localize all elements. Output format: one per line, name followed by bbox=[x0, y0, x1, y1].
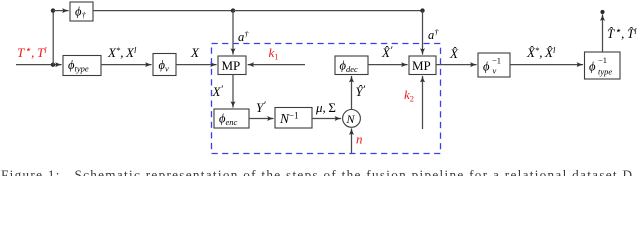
wire: a-dagger drop into MP2 bbox=[422, 11, 424, 55]
svg-text:v: v bbox=[493, 66, 497, 76]
box MP1 bbox=[218, 56, 246, 75]
svg-text:X: X bbox=[190, 45, 200, 60]
svg-text:Ŷ′: Ŷ′ bbox=[356, 84, 366, 100]
svg-text:a†: a† bbox=[428, 27, 439, 42]
sampler circle N bbox=[343, 110, 361, 128]
svg-text:N: N bbox=[346, 112, 356, 126]
box phi_dagger bbox=[70, 2, 93, 21]
svg-text:n: n bbox=[356, 132, 363, 147]
node: corner dot above MP2 bbox=[420, 8, 424, 12]
wire: k2 up into MP2 bbox=[422, 76, 424, 129]
wire: phi_dec to MP2 bbox=[368, 64, 408, 66]
svg-text:X′: X′ bbox=[212, 84, 224, 100]
svg-text:X̂′: X̂′ bbox=[381, 45, 393, 61]
dashed VAE region bbox=[212, 44, 441, 154]
svg-text:−1: −1 bbox=[598, 55, 607, 65]
box phi_type bbox=[63, 56, 101, 76]
svg-text:k1: k1 bbox=[269, 45, 279, 62]
box N^-1 bbox=[275, 108, 312, 129]
node: junction dot above MP1 bbox=[231, 8, 235, 12]
wire: a-dagger drop into MP1 bbox=[232, 11, 234, 55]
box phi_v^-1 bbox=[478, 53, 510, 77]
svg-text:X̂: X̂ bbox=[449, 46, 459, 61]
box phi_dec bbox=[335, 56, 368, 75]
wire: phi_enc to N^-1 bbox=[249, 118, 274, 120]
svg-text:X*, Xl: X*, Xl bbox=[107, 45, 137, 60]
wire: phi_v to MP1 bbox=[176, 64, 217, 66]
svg-text:MP: MP bbox=[222, 58, 241, 73]
svg-text:Y′: Y′ bbox=[256, 100, 266, 116]
box phi_v bbox=[153, 54, 176, 76]
svg-text:a†: a† bbox=[238, 29, 249, 44]
wire: top bus into phi_dagger bbox=[53, 10, 69, 12]
wire: phi_v^-1 to phi_type^-1 bbox=[510, 64, 583, 66]
wire: vertical riser from main line to top bus bbox=[52, 10, 54, 65]
node: output terminal dot bbox=[600, 10, 604, 14]
svg-text:ϕ: ϕ bbox=[589, 60, 596, 74]
svg-text:X̂*, X̂l: X̂*, X̂l bbox=[526, 45, 556, 60]
svg-text:T̂⋆, T̂l: T̂⋆, T̂l bbox=[607, 25, 637, 41]
wire: n input up into circle bbox=[351, 129, 353, 154]
svg-text:T⋆, Tl: T⋆, Tl bbox=[17, 44, 47, 60]
node: junction dot on main line bbox=[51, 62, 55, 66]
wire: top bus from phi_dagger to first drop bbox=[93, 10, 233, 12]
wire: phi_type^-1 up to output node bbox=[602, 15, 604, 53]
svg-text:type: type bbox=[598, 67, 612, 77]
svg-text:μ, Σ: μ, Σ bbox=[315, 100, 336, 115]
box phi_type^-1 bbox=[585, 52, 621, 79]
box phi_enc bbox=[214, 109, 249, 128]
svg-text:Figure 1: Schematic represen: Figure 1: Schematic representation of th… bbox=[1, 167, 632, 176]
wire: circle up into phi_dec bbox=[351, 76, 353, 110]
wire: N^-1 to sampler circle bbox=[312, 118, 341, 120]
wire: main input line from under T label to phi_type bbox=[16, 64, 62, 66]
wire: MP2 to phi_v^-1 bbox=[436, 64, 477, 66]
wire: phi_type to phi_v bbox=[101, 64, 152, 66]
svg-text:MP: MP bbox=[412, 58, 431, 73]
wire: k1 into MP1 (right to left) bbox=[248, 64, 305, 66]
wire: top bus continues to corner above MP2 bbox=[233, 10, 423, 12]
box MP2 bbox=[409, 56, 436, 75]
wire: MP1 down to phi_enc bbox=[232, 75, 234, 108]
svg-text:k2: k2 bbox=[404, 87, 414, 104]
svg-text:−1: −1 bbox=[492, 56, 501, 66]
node: junction dot top-left of top bus bbox=[51, 8, 55, 12]
svg-text:ϕ: ϕ bbox=[483, 60, 490, 74]
